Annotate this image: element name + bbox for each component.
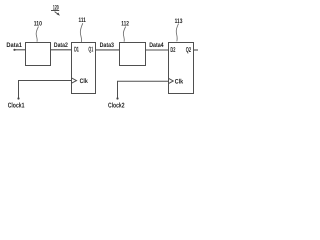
svg-text:Data1: Data1 [6, 42, 22, 49]
svg-text:Clk: Clk [175, 79, 184, 86]
svg-text:Q1: Q1 [88, 47, 93, 54]
svg-text:120: 120 [53, 5, 59, 12]
svg-text:Data2: Data2 [54, 42, 68, 49]
svg-text:Data4: Data4 [149, 42, 164, 49]
svg-text:D2: D2 [170, 47, 175, 54]
svg-text:Q2: Q2 [186, 47, 191, 54]
svg-text:112: 112 [121, 20, 129, 27]
svg-text:Clk: Clk [80, 78, 89, 85]
svg-text:Clock2: Clock2 [108, 101, 125, 109]
svg-text:Clock1: Clock1 [8, 101, 25, 109]
svg-text:Data3: Data3 [100, 42, 115, 49]
svg-text:110: 110 [34, 20, 42, 27]
svg-text:113: 113 [175, 18, 183, 25]
svg-text:111: 111 [79, 17, 87, 24]
svg-text:D1: D1 [74, 47, 79, 54]
